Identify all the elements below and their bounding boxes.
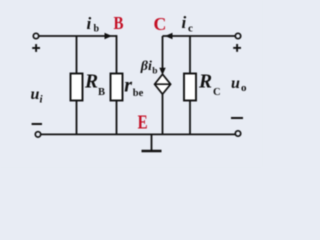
diamond middle bar: [155, 83, 171, 85]
wire: r_be branch bottom: [116, 101, 118, 135]
svg-text:r: r: [124, 75, 132, 97]
svg-text:E: E: [138, 111, 148, 133]
svg-text:B: B: [114, 13, 124, 33]
terminal bottom-left: [35, 132, 40, 137]
svg-text:b: b: [94, 24, 100, 35]
resistor r_be: [111, 74, 123, 101]
plus sign right: [233, 44, 241, 52]
dependent current source diamond: [155, 74, 171, 94]
wire: bottom rail: [41, 133, 236, 135]
resistor R_C: [184, 74, 196, 101]
wire: R_B branch top: [76, 36, 78, 74]
svg-text:C: C: [213, 87, 221, 98]
terminal top-left: [33, 33, 38, 38]
minus sign right: [231, 117, 243, 119]
svg-text:u: u: [31, 86, 40, 103]
svg-text:c: c: [188, 23, 193, 35]
svg-text:βi: βi: [140, 59, 152, 74]
svg-text:R: R: [198, 72, 212, 93]
resistor R_B: [71, 74, 83, 101]
svg-text:u: u: [231, 75, 240, 92]
arrow i_b on base wire: [105, 33, 113, 39]
terminal bottom-right: [235, 131, 240, 136]
ground: [142, 134, 162, 151]
wire: collector vertical above diamond: [162, 36, 164, 70]
svg-text:B: B: [98, 87, 105, 98]
arrow of controlled source pointing down: [159, 68, 165, 75]
svg-text:C: C: [154, 14, 167, 34]
wire: top-left rail from input terminal to node B corner: [39, 35, 117, 37]
wire: top-right rail: [163, 35, 236, 37]
svg-text:o: o: [241, 82, 247, 94]
svg-text:be: be: [133, 88, 144, 99]
wire: R_B branch bottom: [76, 101, 78, 135]
arrow i_c pointing left: [165, 33, 173, 39]
plus sign left: [32, 44, 40, 52]
svg-text:b: b: [152, 67, 157, 77]
wire: R_C branch bottom: [189, 101, 191, 135]
minus sign left: [32, 123, 42, 125]
svg-text:R: R: [84, 72, 98, 93]
svg-text:i: i: [87, 14, 92, 33]
terminal top-right: [235, 33, 240, 38]
wire: R_C branch top: [189, 36, 191, 74]
svg-text:i: i: [182, 13, 187, 32]
wire: r_be branch top: [116, 35, 118, 74]
wire: below diamond to rail: [162, 94, 164, 134]
